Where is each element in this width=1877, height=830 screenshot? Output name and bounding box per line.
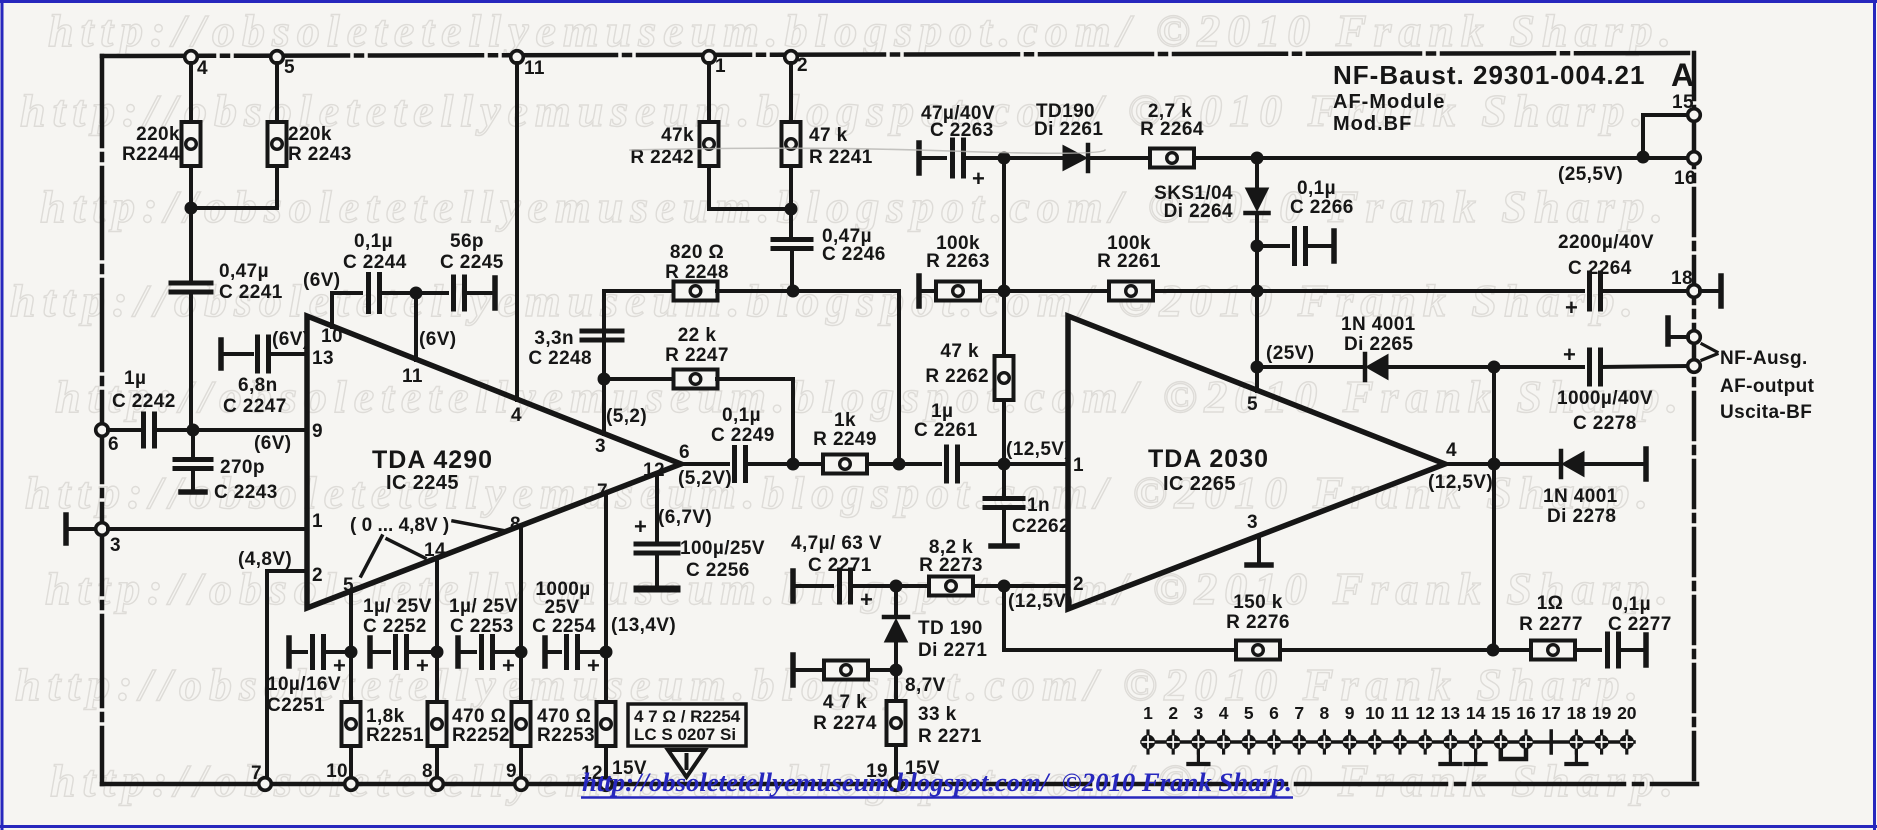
wire node A to C2241 — [189, 208, 193, 283]
wire C2261 to pin1 TDA2030 — [958, 462, 1068, 466]
node L junction — [1637, 151, 1650, 164]
pin 10 label — [321, 326, 343, 347]
terminal 15 label — [1672, 92, 1694, 113]
connector pin 7 — [1292, 703, 1306, 753]
R2243 value labels — [288, 124, 352, 165]
svg-text:18: 18 — [1567, 703, 1587, 723]
svg-text:Di 2271: Di 2271 — [918, 640, 987, 661]
svg-text:4: 4 — [197, 58, 208, 79]
capacitor C2252 — [396, 637, 430, 679]
resistor R2271 33k — [887, 701, 906, 745]
resistor R2247 — [674, 370, 718, 389]
capacitor C2243 — [175, 460, 211, 469]
svg-text:1Ω: 1Ω — [1537, 593, 1564, 614]
wire node Q to C2278 — [1494, 365, 1583, 369]
TDA4290 name — [372, 446, 493, 494]
svg-text:47 k: 47 k — [809, 125, 848, 146]
(6V) label pin10 — [303, 270, 341, 291]
svg-text:C 2247: C 2247 — [223, 396, 287, 417]
AF-output label — [1720, 376, 1815, 397]
connector pin 13 — [1441, 703, 1461, 753]
capacitor C2245 — [454, 277, 465, 309]
svg-text:100µ/25V: 100µ/25V — [680, 538, 765, 559]
capacitor C2244 — [369, 275, 380, 312]
svg-text:http://obsoletetellyemuseum.bl: http://obsoletetellyemuseum.blogspot.com… — [582, 768, 1292, 797]
svg-text:9: 9 — [312, 421, 323, 442]
svg-text:Di 2261: Di 2261 — [1034, 119, 1103, 140]
connector pin 19 — [1592, 703, 1612, 753]
node K junction — [1251, 152, 1264, 165]
Di2278 end stub — [1643, 449, 1649, 479]
R2264 value labels — [1140, 101, 1204, 140]
callout line to pin8 — [453, 521, 506, 531]
resistor R2277 — [1531, 641, 1575, 660]
svg-text:(6V): (6V) — [254, 433, 292, 454]
svg-text:4,7µ/ 63 V: 4,7µ/ 63 V — [791, 533, 882, 554]
svg-text:13: 13 — [312, 348, 334, 369]
svg-text:C 2248: C 2248 — [528, 348, 592, 369]
R2251 value labels — [366, 706, 424, 746]
wire C2278 to NF out — [1601, 366, 1688, 367]
connector pin 2 — [1166, 703, 1180, 753]
svg-text:3: 3 — [595, 436, 606, 457]
wire R2248 rail — [604, 289, 674, 293]
svg-text:6,8n: 6,8n — [238, 375, 278, 396]
svg-text:R 2276: R 2276 — [1226, 612, 1290, 633]
svg-text:C 2242: C 2242 — [112, 391, 176, 412]
pin 2 label — [312, 565, 323, 586]
svg-text:C 2264: C 2264 — [1568, 258, 1632, 279]
(25V) label — [1266, 343, 1314, 364]
terminal 12 — [600, 778, 613, 791]
svg-text:2: 2 — [797, 55, 808, 76]
node Z junction — [600, 646, 613, 659]
terminal 15 — [1688, 109, 1701, 122]
wire pin5 to node W — [349, 591, 353, 702]
wire pin8 to node Y — [519, 528, 523, 702]
wire stub to C2271 — [793, 584, 832, 588]
node P junction 25V — [1251, 361, 1264, 374]
connector pin 10 — [1365, 703, 1385, 753]
resistor R2253 — [512, 702, 531, 746]
wire C2246 to node E — [790, 249, 794, 291]
svg-text:6: 6 — [1269, 703, 1279, 723]
svg-text:+: + — [502, 653, 515, 678]
(13,4V) label — [611, 615, 676, 636]
wire R2273 to pin2 — [973, 584, 1068, 588]
R2276 value labels — [1226, 592, 1290, 633]
svg-text:11: 11 — [1391, 703, 1410, 723]
NF-Ausg. label — [1720, 348, 1808, 369]
svg-text:(12,5V): (12,5V) — [1006, 439, 1071, 460]
resistor R2261 — [1109, 282, 1153, 301]
connector pin 6 — [1267, 703, 1281, 753]
svg-text:6: 6 — [679, 442, 690, 463]
Di2264 labels — [1154, 183, 1233, 222]
svg-text:11: 11 — [524, 58, 545, 79]
wire R2274 to node U — [868, 668, 896, 672]
pin3 label under — [0, 0, 1, 1]
svg-text:1N 4001: 1N 4001 — [1543, 486, 1618, 507]
wire node N to R2261 — [1004, 289, 1111, 293]
wire pin6 out to C2249 — [681, 462, 728, 466]
svg-text:NF-Ausg.: NF-Ausg. — [1720, 348, 1808, 369]
svg-text:C2251: C2251 — [267, 695, 325, 716]
wire term1 to R2242 — [707, 63, 711, 121]
svg-text:3: 3 — [1247, 512, 1258, 533]
R2253 value labels — [537, 706, 595, 746]
terminal 11 label — [524, 58, 545, 79]
svg-text:4 7 k: 4 7 k — [823, 692, 867, 713]
svg-text:820 Ω: 820 Ω — [670, 242, 724, 263]
connector pin 12 — [1415, 703, 1435, 753]
title NF-Baust — [1333, 60, 1645, 90]
terminal 12 label — [581, 763, 603, 784]
wire stub to C2254 — [545, 650, 560, 654]
resistor R2263 — [936, 282, 980, 301]
resistor R2264 — [1150, 149, 1194, 168]
capacitor C2249 — [735, 448, 746, 481]
R2262 value labels — [925, 341, 989, 387]
terminal 4 — [185, 51, 198, 64]
C2251 end stub — [286, 638, 292, 666]
diode Di2261 TD190 — [1063, 145, 1088, 171]
C2261 value labels — [914, 401, 978, 441]
resistor R2254 — [597, 702, 616, 746]
svg-text:1: 1 — [1143, 703, 1153, 723]
blue footer URL text — [581, 768, 1293, 798]
capacitor C2251 — [313, 637, 347, 679]
svg-text:(12,5V): (12,5V) — [1008, 591, 1073, 612]
capacitor C2264 2200u — [1565, 273, 1601, 320]
wire term5 to R2243 — [275, 63, 279, 121]
terminal NF lower — [1688, 360, 1701, 373]
(4,8V) label — [238, 549, 292, 570]
svg-text:12: 12 — [643, 460, 665, 481]
wire C2251 to node W — [324, 650, 351, 654]
terminal 19 — [890, 778, 903, 791]
terminal 9 label — [506, 761, 517, 782]
terminal 16 — [1688, 152, 1701, 165]
svg-text:(25V): (25V) — [1266, 343, 1314, 364]
wire node B to C2243 — [191, 430, 195, 459]
C2266 value labels — [1290, 178, 1354, 218]
svg-text:8,7V: 8,7V — [905, 675, 946, 696]
module border right (dash-dot) — [1692, 53, 1697, 784]
node B junction — [187, 424, 200, 437]
wire stub to C2251 — [289, 650, 306, 654]
svg-text:Mod.BF: Mod.BF — [1333, 113, 1412, 135]
resistor R2251 — [342, 702, 361, 746]
C2271 end stub — [790, 571, 796, 601]
node M junction C2266 tap — [1251, 240, 1264, 253]
svg-text:TDA 2030: TDA 2030 — [1148, 445, 1269, 473]
NF callout upper — [1702, 344, 1717, 352]
wire C2266 to stub — [1306, 244, 1332, 248]
svg-text:19: 19 — [1592, 703, 1612, 723]
node F junction — [785, 203, 798, 216]
svg-text:9: 9 — [1345, 703, 1355, 723]
node U junction — [890, 664, 903, 677]
svg-text:R2244: R2244 — [122, 144, 180, 165]
resistor R2249 — [823, 455, 867, 474]
R2277 value labels — [1519, 593, 1583, 635]
svg-text:7: 7 — [1294, 703, 1304, 723]
resistor R2276 — [1236, 641, 1280, 660]
Di2261 labels — [1034, 101, 1103, 140]
svg-text:14: 14 — [1466, 703, 1486, 723]
wire pin7 to node Z — [604, 494, 608, 702]
callout line to pin5 — [361, 536, 382, 576]
wire term4 to R2244 — [189, 63, 193, 121]
svg-text:10µ/16V: 10µ/16V — [267, 674, 341, 695]
connector pin 16 — [1516, 703, 1536, 753]
C2271 value labels — [791, 533, 882, 576]
module border bottom right (dash-dot) — [940, 782, 1697, 787]
terminal 10 — [345, 778, 358, 791]
terminal 6 label — [108, 434, 119, 455]
svg-text:( 0 ... 4,8V ): ( 0 ... 4,8V ) — [350, 515, 449, 536]
pin 12 label(op) — [643, 460, 665, 481]
wire term11 to pin4 — [515, 63, 519, 400]
svg-text:470 Ω: 470 Ω — [537, 706, 591, 727]
R2252 value labels — [452, 706, 510, 746]
wire R2254 to term12 — [604, 746, 608, 778]
(12,5V) label pin2 — [1008, 591, 1073, 612]
svg-text:14: 14 — [424, 540, 446, 561]
wire node J to Di2261 — [1004, 156, 1063, 160]
svg-text:+: + — [972, 166, 985, 191]
wire node D to R2247 — [604, 377, 674, 381]
node I junction — [998, 458, 1011, 471]
(12,5V) label pin1 — [1006, 439, 1071, 460]
svg-text:3: 3 — [1194, 703, 1204, 723]
terminal 8 — [431, 778, 444, 791]
capacitor C2241 — [171, 283, 211, 292]
svg-text:16: 16 — [1674, 168, 1696, 189]
svg-text:4: 4 — [1446, 440, 1457, 461]
wire C2262 to gnd — [1002, 508, 1006, 544]
R2271 value labels — [918, 704, 982, 747]
terminal 11 — [511, 51, 524, 64]
R2248 value labels — [665, 242, 729, 283]
svg-text:AF-Module: AF-Module — [1333, 91, 1445, 113]
node V junction — [1487, 644, 1500, 657]
C2256 ground bar — [637, 586, 677, 593]
wire R2249 to C2261 — [867, 462, 940, 466]
(25,5V) label — [1558, 164, 1623, 185]
svg-text:R 2247: R 2247 — [665, 345, 729, 366]
svg-text:R 2248: R 2248 — [665, 262, 729, 283]
node X junction — [431, 646, 444, 659]
svg-text:12: 12 — [1415, 703, 1435, 723]
resistor R2248 — [674, 282, 718, 301]
svg-text:0,1µ: 0,1µ — [722, 405, 761, 426]
wire node B to pin9 — [193, 428, 307, 432]
pin 8 label(op) — [510, 514, 521, 535]
svg-text:47 k: 47 k — [940, 341, 979, 362]
svg-text:IC 2265: IC 2265 — [1163, 473, 1236, 495]
wire Di2264 to node M — [1255, 213, 1259, 291]
terminal 1 — [703, 51, 716, 64]
R2254 label box — [628, 704, 746, 746]
svg-text:15: 15 — [1672, 92, 1694, 113]
connector ground symbol — [1440, 751, 1460, 764]
wire pin3 stub — [1257, 536, 1261, 563]
connector pin 17 tick — [1541, 703, 1560, 753]
pin 5 label(op) — [343, 575, 354, 596]
svg-text:C 2277: C 2277 — [1608, 614, 1672, 635]
module border bottom left (solid) — [102, 782, 940, 787]
wire R2271 to term19 — [894, 745, 898, 778]
svg-text:C 2245: C 2245 — [440, 252, 504, 273]
svg-text:5: 5 — [1247, 394, 1258, 415]
wire C2277 to stub — [1619, 648, 1645, 652]
svg-text:1,8k: 1,8k — [366, 706, 405, 727]
Uscita-BF label — [1720, 402, 1812, 423]
connector pin 14 — [1466, 703, 1486, 753]
svg-text:10: 10 — [1365, 703, 1385, 723]
op-amp IC2245 TDA4290 triangle — [307, 316, 681, 608]
node Q junction — [1488, 361, 1501, 374]
svg-text:R 2261: R 2261 — [1097, 251, 1161, 272]
svg-text:IC 2245: IC 2245 — [386, 472, 459, 494]
svg-text:TDA 4290: TDA 4290 — [372, 446, 493, 474]
(6V) label pin9 — [254, 433, 292, 454]
capacitor C2256 100u — [634, 514, 678, 553]
capacitor C2263 — [953, 140, 986, 191]
module border left (dash-dot) — [100, 56, 105, 784]
wire node K to Di2264 — [1255, 158, 1259, 187]
C2263 value labels — [921, 103, 995, 141]
terminal 7 — [259, 778, 272, 791]
pin 13 label — [312, 348, 334, 369]
svg-text:1µ: 1µ — [124, 368, 146, 389]
svg-text:10: 10 — [326, 761, 348, 782]
terminal 9 — [515, 778, 528, 791]
connector pin 4 — [1216, 703, 1230, 753]
svg-text:R2251: R2251 — [366, 725, 424, 746]
terminal 5 label — [284, 57, 295, 78]
wire pin11 riser — [414, 293, 418, 360]
wire stub to C2253 — [458, 650, 475, 654]
svg-text:R2253: R2253 — [537, 725, 595, 746]
svg-text:Di 2278: Di 2278 — [1547, 506, 1616, 527]
node H junction — [893, 458, 906, 471]
terminal 10 label — [326, 761, 348, 782]
svg-text:C2262: C2262 — [1012, 516, 1070, 537]
svg-text:5: 5 — [1244, 703, 1254, 723]
svg-text:2: 2 — [1168, 703, 1178, 723]
resistor R2241 — [782, 122, 801, 166]
svg-text:C 2241: C 2241 — [219, 282, 283, 303]
diode Di2265 1N4001 — [1365, 354, 1388, 380]
node N junction — [998, 285, 1011, 298]
wire stub to R2274 — [793, 668, 825, 672]
R2263 end stub — [916, 276, 922, 306]
(6,7V) label — [658, 507, 712, 528]
node O junction — [1251, 285, 1264, 298]
module border top (dash-dot) — [102, 53, 1694, 56]
svg-text:AF-output: AF-output — [1720, 376, 1815, 397]
wire C2242 to node B — [159, 428, 191, 432]
svg-text:R 2273: R 2273 — [919, 555, 983, 576]
R2274 end stub — [790, 655, 796, 685]
svg-text:1: 1 — [1073, 455, 1084, 476]
capacitor C2261 — [947, 447, 958, 481]
svg-text:R 2277: R 2277 — [1519, 614, 1583, 635]
svg-text:150 k: 150 k — [1233, 592, 1283, 613]
resistor R2274 — [824, 661, 868, 680]
(6V) label pin13 — [272, 329, 310, 350]
wire R2264 to corner16 — [1194, 156, 1688, 160]
svg-text:(5,2V): (5,2V) — [678, 468, 732, 489]
capacitor C2277 — [1608, 634, 1619, 666]
node A junction — [185, 202, 198, 215]
diode Di2264 SKS1/04 — [1246, 188, 1269, 213]
R2241 value labels — [809, 125, 873, 168]
capacitor C2266 — [1295, 229, 1306, 264]
wire R2261 to node O — [1153, 289, 1257, 293]
wire R2252 to term8 — [435, 746, 439, 778]
connector pin 9 — [1342, 703, 1356, 753]
svg-text:R 2262: R 2262 — [925, 366, 989, 387]
connector ground symbol — [1466, 751, 1486, 764]
C2242 value labels — [112, 368, 176, 412]
wire C2244 to node C — [380, 291, 447, 295]
wire R2241 to C2246 — [789, 166, 793, 240]
svg-text:4: 4 — [511, 405, 522, 426]
R2242 value labels — [630, 125, 694, 168]
pin 14 label(op) — [424, 540, 446, 561]
connector ground symbol — [1188, 751, 1208, 764]
diode Di2278 1N4001 — [1561, 451, 1584, 477]
Di2265 labels — [1341, 314, 1416, 355]
wire node O to node P — [1255, 291, 1259, 391]
NF callout lower — [1702, 354, 1717, 360]
terminal 4 label — [197, 58, 208, 79]
15V label at 19 — [905, 758, 940, 779]
wire node V to R2277 — [1493, 648, 1531, 652]
C2277 end stub — [1643, 635, 1649, 665]
svg-text:C 2254: C 2254 — [532, 616, 596, 637]
resistor R2262 — [995, 356, 1014, 400]
C2254 value labels — [532, 579, 596, 637]
svg-text:0,47µ: 0,47µ — [219, 261, 269, 282]
connector pin 15 — [1491, 703, 1511, 753]
capacitor C2248 — [582, 331, 622, 340]
svg-text:C 2253: C 2253 — [450, 616, 514, 637]
wire Di2261 to R2264 — [1088, 156, 1150, 160]
scan streak artifact — [630, 148, 1105, 153]
(12,5V) label pin4 — [1428, 472, 1493, 493]
svg-text:+: + — [1563, 342, 1576, 367]
svg-text:http://obsoletetellyemuseum.bl: http://obsoletetellyemuseum.blogspot.com… — [48, 5, 1678, 56]
R2247 value labels — [665, 325, 729, 366]
C2244 value labels — [343, 231, 407, 273]
wire node E corner to main line — [897, 291, 901, 464]
wire 25V to Di2265 — [1257, 365, 1365, 369]
C2277 value labels — [1608, 594, 1672, 635]
svg-text:(6V): (6V) — [303, 270, 341, 291]
15V label at 12 — [612, 758, 647, 779]
capacitor C2242 — [144, 414, 155, 446]
svg-text:47k: 47k — [661, 125, 694, 146]
wire term2 to R2241 — [789, 63, 793, 121]
svg-text:A: A — [1671, 57, 1694, 93]
(5,2V) label — [678, 468, 732, 489]
node E junction — [787, 285, 800, 298]
